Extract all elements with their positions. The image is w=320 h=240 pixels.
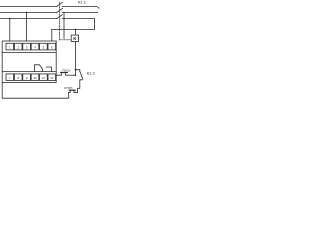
button STOP wire right bbox=[74, 91, 78, 93]
wire L3 drop to bus bbox=[94, 19, 96, 30]
svg-text:10: 10 bbox=[33, 76, 37, 80]
wire L1 phase line right bbox=[62, 6, 95, 8]
device outline bbox=[2, 41, 56, 82]
wire L2 phase line right bbox=[62, 12, 97, 14]
button STOP bridge bar bbox=[69, 89, 75, 91]
wire L3 phase line right bbox=[62, 18, 94, 20]
wire coil K top lead bbox=[74, 29, 76, 35]
svg-text:ПУСК: ПУСК bbox=[62, 69, 70, 73]
wire V64 tap bbox=[63, 13, 65, 39]
junction node coil top/H1 bbox=[75, 29, 77, 31]
top strip bottom rule bbox=[2, 51, 56, 53]
svg-text:12: 12 bbox=[50, 76, 54, 80]
terminal strip top inner boxes bbox=[6, 43, 14, 50]
wire L1 end hook bbox=[95, 7, 99, 9]
linkage dashed to coil K bbox=[59, 39, 71, 41]
svg-text:СТОП: СТОП bbox=[64, 86, 73, 90]
button STOP wire left bbox=[69, 91, 71, 93]
button PUSK wire right bbox=[66, 74, 76, 76]
terminal strip bottom inner boxes bbox=[6, 74, 14, 81]
svg-text:К1.2: К1.2 bbox=[87, 71, 96, 76]
junction node t3/L2 bbox=[26, 12, 28, 14]
button STOP fixed contacts bbox=[70, 91, 74, 93]
svg-text:К1.1: К1.1 bbox=[78, 0, 87, 5]
internal contact bump terminals 10-11 bbox=[34, 65, 42, 72]
junction node A bbox=[75, 69, 77, 71]
svg-text:11: 11 bbox=[42, 76, 45, 80]
bottom strip top rule bbox=[2, 71, 56, 73]
terminal numbers top bbox=[9, 45, 54, 80]
wire bus H1 bbox=[52, 28, 95, 30]
switch QF1 blade pole 3 bbox=[57, 15, 63, 19]
jumper terminal 12 bbox=[46, 67, 51, 72]
wire coil K bottom lead bbox=[74, 42, 76, 76]
svg-text:К: К bbox=[73, 36, 76, 41]
wire terminal 1 drop bbox=[9, 19, 11, 41]
contact K1.2 lower loop bbox=[78, 78, 83, 93]
wire L2 phase line left bbox=[0, 12, 57, 14]
wire terminal 6 drop bbox=[51, 29, 53, 41]
button PUSK fixed contacts bbox=[61, 73, 65, 75]
wire L3 phase line left bbox=[0, 18, 57, 20]
junction node V64/L3 bbox=[63, 18, 65, 20]
wire terminal 3 drop bbox=[26, 13, 28, 42]
switch QF1 blade pole 1 bbox=[57, 2, 63, 6]
switch QF1 mechanical linkage dashed bbox=[58, 2, 60, 39]
wire bottom left long run bbox=[2, 82, 69, 98]
wire L1 phase line left bbox=[0, 6, 57, 8]
coil K box bbox=[71, 35, 78, 41]
switch QF1 blade pole 2 bbox=[57, 8, 63, 12]
button PUSK wire left bbox=[56, 74, 61, 76]
junction node t1/L3 bbox=[9, 18, 11, 20]
button PUSK bridge bar bbox=[61, 72, 67, 74]
contact K1.2 blade bbox=[80, 71, 83, 78]
